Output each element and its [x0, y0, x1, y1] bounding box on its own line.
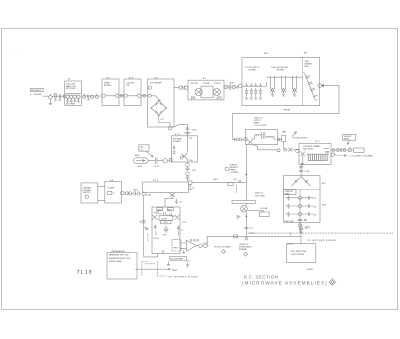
svg-text:+Y AMP: +Y AMP [107, 187, 115, 190]
crystal on osc feed [299, 224, 309, 231]
wire mixer LO port [174, 87, 179, 89]
transistor Q2 [241, 205, 248, 212]
svg-text:P8O: P8O [174, 246, 179, 249]
svg-text:1ST: 1ST [140, 146, 145, 149]
capacitor C60 [299, 167, 302, 168]
arrows on second run [338, 155, 346, 157]
bus bar 2 [232, 201, 255, 204]
svg-text:(3.5 GHZ): (3.5 GHZ) [255, 194, 265, 197]
connector P5 [120, 94, 123, 97]
svg-text:~~..: ~~.. [14, 47, 21, 51]
box A14 tune bus [143, 182, 189, 193]
svg-text:SWP: SWP [250, 232, 255, 235]
svg-text:TEST: TEST [172, 269, 178, 272]
connector P13 [186, 163, 190, 167]
svg-text:2.1-3.9 GHZ LP: 2.1-3.9 GHZ LP [245, 66, 261, 69]
svg-text:2ND: 2ND [305, 60, 310, 63]
inductor L5 [179, 229, 185, 235]
wire second run [331, 154, 337, 155]
top row elements [154, 211, 175, 216]
svg-text:C215: C215 [192, 129, 198, 132]
capacitor C32 [186, 175, 189, 181]
svg-text:FRAME: FRAME [239, 248, 247, 251]
svg-text:AMP: AMP [285, 192, 290, 195]
capacitor C50 [285, 148, 288, 151]
dashed PD mother board center [157, 275, 167, 277]
svg-text:R.F. SECTION: R.F. SECTION [244, 274, 279, 279]
dashed vertical [235, 185, 237, 193]
svg-text:CHKD: CHKD [307, 268, 314, 271]
svg-text:(MAINTAIN 5OΩ 1/2W: (MAINTAIN 5OΩ 1/2W [109, 257, 131, 260]
connector P18 [125, 192, 128, 195]
connector P29 [298, 224, 302, 228]
svg-text:AMPL: AMPL [254, 122, 261, 125]
label 1.5GHZ box [259, 207, 269, 217]
wire test [136, 268, 170, 270]
svg-text:FREQ: FREQ [230, 169, 236, 172]
dashes right of reference box [145, 263, 155, 265]
svg-text:L2 C2: L2 C2 [154, 165, 161, 168]
port box on tune wire [228, 183, 233, 186]
label DC OFFSET [170, 257, 187, 261]
input port square on A13 [169, 159, 172, 162]
connector P21 [236, 138, 239, 141]
svg-text:SUPPLY: SUPPLY [83, 191, 92, 194]
svg-text:CHECK: CHECK [230, 163, 238, 166]
wire comb filter out [331, 149, 354, 151]
wire A1 to A2 [82, 95, 103, 97]
svg-text:VA OSC: VA OSC [190, 82, 198, 85]
svg-text:2.2-4.0 GHZ: 2.2-4.0 GHZ [254, 124, 266, 127]
box 40 [161, 220, 171, 224]
capacitor C2 [183, 86, 184, 89]
connector input big box [239, 84, 243, 88]
svg-text:IF TO LOG AMPL: IF TO LOG AMPL [214, 245, 232, 248]
diode D1 [288, 148, 291, 151]
svg-text:1.5 GHZ: 1.5 GHZ [260, 207, 269, 210]
wire Q2 to 1.5GHZ [247, 209, 259, 211]
connector P2 [83, 94, 86, 99]
box A12 comb bandpass filter [296, 144, 331, 165]
svg-text:DC OFFSET: DC OFFSET [171, 258, 184, 261]
wire A6 to bus [124, 192, 133, 194]
connector J1 RF INPUT label [31, 88, 44, 92]
svg-text:RF INPUT: RF INPUT [31, 89, 42, 92]
label 1.08-1.98GHZ BP [271, 66, 289, 72]
wire IF vertical through A13 [187, 136, 189, 163]
svg-text:LO: LO [161, 118, 164, 121]
connector P22 [239, 138, 242, 141]
svg-text:FROM: FROM [284, 109, 291, 112]
bandpass filter cell 1 [267, 76, 299, 96]
svg-text:A 1 4: A 1 4 [153, 179, 159, 182]
varactor box VR1 [282, 135, 286, 150]
connector P15 [155, 158, 157, 164]
box A4 1st mixer [148, 79, 175, 127]
wire input [43, 95, 48, 97]
box A1 low pass filter [65, 81, 82, 106]
svg-text:C150: C150 [146, 194, 152, 197]
wire port down [189, 185, 192, 190]
svg-text:2ND L.O.: 2ND L.O. [254, 116, 263, 119]
port box on sweep wire [234, 235, 238, 238]
crystal Y1 [163, 226, 168, 237]
connector P28 [331, 153, 334, 156]
wire bus to tune line [192, 182, 246, 184]
svg-text:+SUPPLY: +SUPPLY [239, 243, 249, 246]
dashed enclosure [142, 262, 157, 276]
capacitor C31 [186, 167, 196, 173]
bandpass filter cell 3 [292, 76, 296, 96]
junction dot [246, 174, 247, 175]
svg-text:& END VIEW: & END VIEW [109, 260, 123, 263]
connector P8 [179, 86, 182, 89]
wire A2 to A3 [119, 95, 124, 97]
dashed box P80 [172, 240, 181, 251]
capacitor C80 [239, 180, 240, 183]
diode X on wire [142, 220, 145, 223]
connector P30 [199, 244, 203, 248]
capacitor C23 [144, 227, 149, 230]
capacitor C82 [245, 227, 254, 230]
svg-text:1.08-1.98 GHZ BP: 1.08-1.98 GHZ BP [271, 66, 289, 69]
capacitor C81 [237, 215, 240, 218]
connector P4 [95, 94, 98, 99]
bandpass filter cell 2 [281, 76, 285, 96]
wire log amp to line [347, 140, 349, 144]
connector P14 [186, 172, 190, 176]
svg-text:AT 1ODB: AT 1ODB [66, 87, 76, 90]
wire bus bottom bowtie [165, 193, 175, 207]
wire bus left down [144, 196, 158, 257]
diode string 2nd mixer [304, 73, 318, 101]
svg-text:(→0-1.8GHZ +6.3V AMPL: (→0-1.8GHZ +6.3V AMPL [348, 155, 374, 158]
svg-text:DOUBLE TUNED: DOUBLE TUNED [303, 145, 320, 148]
test point diamond [222, 250, 226, 254]
box B1 power supply [81, 183, 98, 203]
label 2nd LO text block [254, 116, 267, 127]
label 1ST LO box [139, 145, 149, 152]
capacitor C101 [186, 260, 191, 267]
ground opamp [182, 250, 185, 253]
dashed segment [147, 234, 149, 241]
connector P23b [277, 149, 280, 152]
svg-text:A2O: A2O [322, 204, 327, 207]
svg-text:L.O.: L.O. [140, 148, 144, 151]
wires B1 to A6 [98, 186, 105, 200]
svg-text:1A7B: 1A7B [161, 217, 167, 220]
svg-text:(0 - 1.8GHZ): (0 - 1.8GHZ) [30, 93, 42, 96]
junction dot 2 [246, 216, 247, 217]
connector P20 [142, 192, 146, 196]
svg-text:PD MOTHER BOARD: PD MOTHER BOARD [308, 239, 337, 242]
capacitor C44 [175, 199, 182, 204]
svg-text:OSCILLATOR: OSCILLATOR [291, 253, 305, 256]
box A10 A11 phase lock [152, 207, 180, 254]
box A15 filters and 2nd mixer [242, 58, 320, 106]
capacitor C90 [154, 225, 156, 230]
arrow from 1st LO label [146, 151, 153, 157]
wire into 2nd conv amp [233, 138, 244, 141]
connector P11 [232, 85, 236, 89]
dashed corner [290, 233, 292, 236]
svg-text:TUNE: TUNE [203, 82, 209, 85]
connector at A1 input [63, 95, 66, 98]
capacitor C61 [299, 170, 310, 173]
capacitor C91 [177, 225, 179, 230]
wire coil box to comb filter [278, 139, 299, 150]
delay line box [354, 148, 365, 152]
svg-text:1ST I.F.: 1ST I.F. [254, 119, 262, 122]
capacitor C1 [87, 95, 89, 100]
label log amp box [343, 134, 356, 140]
svg-text:5O OHM: 5O OHM [66, 103, 75, 106]
svg-text:A1O: A1O [157, 208, 162, 211]
svg-text:2ND L.O.: 2ND L.O. [255, 191, 264, 194]
resistor R90 [155, 231, 157, 235]
svg-text:MIXER: MIXER [305, 63, 312, 66]
box A13 475MHZ IF amp [171, 136, 197, 162]
label 2nd LO 3.5GHZ [255, 191, 265, 197]
label tag A11 [167, 208, 173, 212]
op-amp U1 [187, 240, 197, 251]
connector P31 [204, 244, 208, 248]
box A2 step attenuator [102, 79, 119, 106]
svg-text:FILTER: FILTER [277, 69, 285, 72]
svg-text:A 1 2: A 1 2 [315, 140, 321, 143]
label tag A10 [157, 208, 163, 212]
box A6 tune amp [105, 182, 122, 203]
svg-text:BNC 50Ω: BNC 50Ω [284, 220, 293, 223]
svg-text:1ST MIXER: 1ST MIXER [150, 82, 162, 85]
diode X left [152, 215, 157, 220]
svg-text:ATTEN: ATTEN [104, 84, 111, 87]
connector P9 [185, 86, 188, 89]
svg-text:L1O: L1O [192, 169, 196, 172]
svg-text:7L13: 7L13 [77, 269, 93, 275]
svg-text:IF AMPL: IF AMPL [173, 140, 182, 143]
label 2nd mixer [305, 60, 312, 68]
test point diamond 2 [244, 252, 248, 256]
label 2.1-3.9GHZ LP [245, 66, 261, 72]
svg-text:PD MOTHER BOARD: PD MOTHER BOARD [169, 276, 199, 279]
connector P17 [120, 191, 124, 195]
wire A3 to mixer [141, 95, 148, 97]
dashed mother board right [248, 232, 393, 234]
svg-text:FROM MAIN: FROM MAIN [239, 246, 252, 249]
svg-text:OS PR: OS PR [214, 82, 221, 85]
connector P26 [343, 149, 346, 152]
box A21 distribution amp [284, 176, 320, 224]
svg-text:BAL FLTR: BAL FLTR [303, 148, 313, 151]
box reference notes [107, 253, 137, 279]
svg-text:C1OO: C1OO [153, 237, 159, 240]
svg-text:A8R: A8R [282, 131, 287, 134]
connector P3 [91, 95, 94, 98]
label supply text [239, 243, 252, 251]
junction arrow [322, 84, 324, 87]
capacitor C21 [134, 191, 137, 195]
test point component [167, 261, 170, 270]
junction dot osc [300, 231, 302, 233]
svg-text:+3OO: +3OO [136, 165, 142, 168]
wire osc vertical [300, 232, 302, 244]
svg-text:1OO MHZ XTAL: 1OO MHZ XTAL [291, 250, 307, 253]
port box at A14 right [188, 181, 192, 185]
wire loop to 2nd converter [233, 86, 339, 140]
diode X right [175, 215, 180, 220]
connector P10 [224, 85, 228, 89]
wire A21 down [299, 223, 301, 232]
ground [49, 99, 52, 104]
connector output big box [318, 84, 322, 88]
box A3 filter [124, 79, 141, 106]
svg-text:ADJUST: ADJUST [230, 166, 239, 169]
connector P23 [278, 138, 281, 141]
capacitor C215 [186, 128, 198, 132]
wire A9 out [224, 86, 239, 88]
arrow to 2nd conv label [292, 132, 308, 140]
capacitor C102 [191, 239, 199, 241]
connector P16 [163, 159, 167, 163]
svg-text:TO 2ND CONV: TO 2ND CONV [293, 136, 308, 139]
wire bp to mixer [242, 77, 303, 86]
box 1A7B [159, 216, 173, 221]
tune line vertical [245, 146, 247, 237]
box A9 1st LO voltage tuned osc [188, 80, 224, 100]
svg-text:FILTER: FILTER [249, 69, 257, 72]
svg-text:(MICROWAVE ASSEMBLIES): (MICROWAVE ASSEMBLIES) [242, 280, 328, 285]
oscillator output rounded box [133, 158, 148, 164]
wire comb filter down [300, 165, 302, 176]
connector P7 mixer IF out [168, 127, 171, 130]
svg-text:LPF: LPF [126, 84, 131, 87]
svg-text:+15O: +15O [213, 178, 219, 181]
capacitor C51 [341, 148, 342, 151]
svg-text:TERMINAL KEY 1O2: TERMINAL KEY 1O2 [108, 254, 129, 257]
wire opamp out [196, 236, 208, 246]
opamp input wires [180, 243, 187, 248]
connector P25 [336, 149, 339, 152]
capacitor C3 [229, 84, 230, 89]
title diamond [329, 279, 336, 286]
svg-text:L103: L103 [305, 170, 311, 173]
wire osc chain [148, 160, 169, 162]
connector P6 [143, 94, 146, 97]
label check text block [225, 163, 239, 174]
connector P19 [129, 192, 132, 195]
diode X sweep [245, 237, 248, 240]
attenuator AT1 [52, 92, 64, 100]
capacitor C216 [184, 132, 190, 133]
svg-text:LOCKED: LOCKED [230, 171, 239, 174]
capacitor C22 [138, 191, 141, 195]
transistor Q1 [244, 137, 277, 149]
svg-text:SALD: SALD [134, 154, 140, 157]
lowpass filter elements [244, 83, 266, 99]
capacitor C70 [298, 219, 307, 220]
wire IF vertical from mixer [172, 125, 188, 136]
connector P12 [236, 85, 238, 88]
box A8 coil filter [245, 130, 277, 145]
wire sweep [207, 235, 301, 237]
divider A15/A17 [302, 58, 304, 106]
connector P1 [49, 94, 53, 99]
connector P24 [332, 149, 335, 152]
box A100 100MHZ osc [287, 244, 316, 263]
connector P27 [348, 147, 352, 152]
bottom edge components [162, 251, 164, 253]
